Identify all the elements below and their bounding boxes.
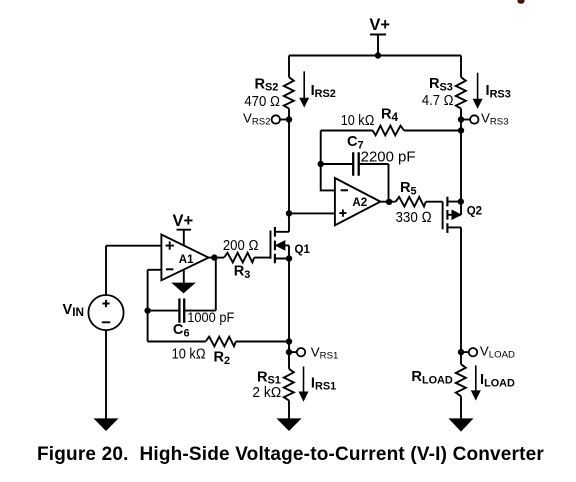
- wire VLOAD stub: [461, 351, 469, 353]
- svg-text:A2: A2: [352, 197, 367, 209]
- wire A1 output: [209, 257, 224, 259]
- op-amp A2: [335, 178, 381, 225]
- wire A2 + input from left bus: [289, 212, 335, 214]
- svg-text:R4: R4: [381, 107, 399, 124]
- resistor R4: [321, 126, 461, 136]
- svg-text:A1: A1: [179, 254, 194, 266]
- svg-text:10 kΩ: 10 kΩ: [172, 347, 206, 363]
- wire top rail: [289, 55, 461, 57]
- wire VIN top: [105, 246, 107, 295]
- resistor RS3: [456, 77, 466, 108]
- wire R4 to junction: [320, 131, 322, 165]
- wire right bus mid: [460, 109, 462, 202]
- resistor RLOAD: [456, 364, 466, 396]
- arrow IRS3: [477, 73, 479, 100]
- node circle VLOAD: [469, 348, 477, 356]
- node circle VRS1: [297, 348, 305, 356]
- wire RS1 to ground: [288, 400, 290, 418]
- wire A2 output: [380, 201, 395, 203]
- svg-text:2200 pF: 2200 pF: [361, 150, 416, 166]
- wire VRS1 stub: [289, 351, 297, 353]
- node circle VRS3: [470, 115, 478, 123]
- ground arrow RLOAD: [449, 418, 474, 431]
- wire left bus upper: [288, 56, 290, 78]
- wire right bus upper: [460, 56, 462, 78]
- capacitor C7: [321, 152, 389, 176]
- source VIN: [88, 295, 123, 330]
- resistor RS2: [284, 77, 294, 108]
- junction A2 plus branch: [286, 210, 292, 216]
- capacitor C6: [148, 299, 216, 323]
- node circle VRS2: [272, 115, 280, 123]
- wire to RLOAD: [460, 352, 462, 364]
- resistor R3: [224, 253, 271, 263]
- op-amp A2 plus sign: [339, 210, 346, 217]
- junction C6 left: [144, 307, 150, 313]
- resistor RS1: [284, 369, 294, 401]
- wire VRS2 stub: [280, 119, 289, 121]
- svg-text:Figure 20. High-Side Voltage-: Figure 20. High-Side Voltage-to-Current …: [37, 444, 544, 465]
- power V+ terminal: [370, 35, 386, 56]
- junction A1 output: [211, 254, 217, 260]
- ground arrow VIN: [94, 418, 119, 431]
- wire feedback vertical: [147, 270, 149, 342]
- wire A1 - input: [148, 269, 162, 271]
- wire A1 + input: [106, 245, 161, 247]
- arrow IRS2: [303, 71, 305, 98]
- svg-text:4.7 Ω: 4.7 Ω: [422, 93, 454, 109]
- junction VRS2: [286, 116, 292, 122]
- wire VRS3 stub: [461, 119, 470, 121]
- svg-text:200 Ω: 200 Ω: [223, 238, 259, 254]
- junction VLOAD: [458, 349, 464, 355]
- svg-text:2 kΩ: 2 kΩ: [252, 385, 281, 401]
- wire VIN bottom: [105, 330, 107, 418]
- svg-text:V+: V+: [369, 16, 390, 34]
- wire RLOAD to ground: [460, 396, 462, 418]
- stray red mark top right: [517, 0, 524, 4]
- transistor Q1: [271, 227, 290, 263]
- op-amp A1 minus sign: [166, 268, 173, 270]
- ground arrow A1: [171, 283, 196, 294]
- junction V+ top: [375, 52, 381, 58]
- svg-text:Q2: Q2: [467, 205, 482, 217]
- junction Q1 source: [286, 255, 292, 261]
- junction VRS3: [458, 116, 464, 122]
- wire Q1 source down left bus: [288, 259, 290, 369]
- wire junction to A2 inverting input: [321, 164, 335, 190]
- junction A2 output: [386, 199, 392, 205]
- transistor Q2: [443, 197, 461, 233]
- power V+ terminal A1: [177, 230, 192, 246]
- junction VRS1: [286, 349, 292, 355]
- resistor R2: [148, 337, 289, 347]
- svg-text:V+: V+: [173, 212, 194, 230]
- wire Q2 source down right bus: [460, 227, 462, 352]
- arrow ILOAD: [475, 365, 477, 391]
- wire A1 negative supply pin: [183, 270, 185, 283]
- svg-text:1000 pF: 1000 pF: [187, 310, 234, 325]
- wire left bus mid: [288, 109, 290, 232]
- junction C7 left: [318, 161, 324, 167]
- junction R2 right: [286, 338, 292, 344]
- svg-text:10 kΩ: 10 kΩ: [341, 113, 375, 129]
- svg-text:470 Ω: 470 Ω: [244, 94, 280, 110]
- op-amp A1 plus sign: [166, 241, 174, 249]
- svg-text:Q1: Q1: [295, 244, 311, 256]
- op-amp A2 minus sign: [341, 189, 348, 191]
- arrow IRS1: [303, 367, 305, 393]
- svg-text:330 Ω: 330 Ω: [396, 210, 432, 226]
- wire C7 to A2 output: [388, 164, 390, 202]
- ground arrow RS1: [277, 418, 302, 431]
- svg-text:VIN: VIN: [63, 302, 85, 319]
- wire C6 to A1 output: [215, 258, 217, 311]
- resistor R5: [396, 197, 443, 207]
- junction Q2 drain: [458, 198, 464, 204]
- junction R4 right: [458, 127, 464, 133]
- op-amp A1: [161, 235, 208, 281]
